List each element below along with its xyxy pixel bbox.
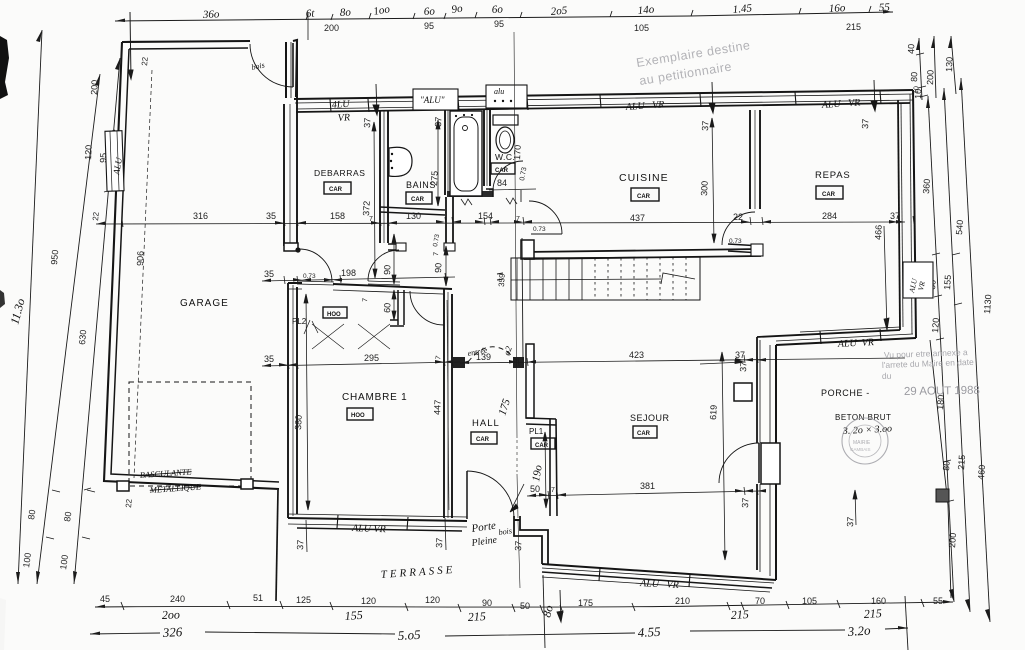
svg-text:14o: 14o	[637, 4, 655, 17]
closet PL2 cross marks	[312, 324, 390, 349]
svg-text:VR: VR	[337, 112, 350, 124]
right long dim line 360/60/120/180/80/200	[928, 96, 954, 602]
top chain right arrow	[883, 10, 893, 14]
svg-text:155: 155	[344, 608, 363, 623]
svg-text:PL2: PL2	[292, 317, 307, 326]
right wall window	[903, 262, 933, 298]
bathtub	[450, 111, 482, 196]
garage inner wall	[111, 48, 279, 482]
svg-text:8o: 8o	[340, 6, 352, 19]
37 porch wall thickness	[700, 360, 744, 364]
svg-text:CAR: CAR	[495, 168, 509, 174]
svg-text:50: 50	[520, 601, 530, 611]
svg-text:200: 200	[925, 70, 936, 85]
chambre hall south 37s	[306, 518, 446, 552]
svg-text:GARAGE: GARAGE	[180, 298, 229, 309]
svg-text:ALU VR: ALU VR	[837, 337, 875, 350]
left dim line outermost 11.30	[18, 30, 42, 584]
svg-text:906: 906	[135, 251, 146, 266]
bains south wall	[388, 244, 397, 250]
bottom total line	[90, 628, 908, 636]
37 labels under top wall	[362, 86, 920, 131]
svg-text:158: 158	[330, 211, 345, 221]
chambre corridor door threshold	[297, 281, 334, 285]
svg-text:HOO: HOO	[327, 312, 341, 318]
entrance door jamb block east	[513, 357, 524, 368]
entrance door jamb block west	[453, 357, 465, 368]
right short dim line 130	[951, 36, 956, 94]
top vertical guide x308	[307, 12, 309, 40]
svg-text:PL1: PL1	[529, 427, 544, 436]
porch dim 619	[720, 352, 727, 560]
svg-text:80: 80	[62, 511, 73, 522]
hall chambre south wall	[288, 518, 520, 521]
stairs outline	[511, 257, 700, 300]
svg-text:7: 7	[362, 298, 369, 302]
svg-text:154: 154	[478, 211, 493, 221]
svg-text:200: 200	[324, 23, 339, 33]
svg-text:300: 300	[699, 181, 710, 197]
scan mark left edge	[0, 290, 5, 308]
svg-text:bois: bois	[498, 526, 512, 537]
svg-text:120: 120	[425, 595, 440, 605]
bains door threshold	[368, 281, 400, 285]
right short dim line 40/80/10	[919, 38, 922, 100]
hall axis line	[514, 32, 520, 588]
svg-text:175: 175	[578, 598, 593, 608]
svg-text:381: 381	[640, 481, 655, 491]
svg-text:22: 22	[733, 212, 743, 222]
svg-text:100: 100	[58, 554, 70, 570]
cuisine hall door leaf	[531, 233, 562, 235]
svg-text:ALU VR: ALU VR	[351, 523, 386, 535]
svg-text:6o: 6o	[424, 5, 436, 18]
svg-text:90: 90	[433, 263, 444, 274]
svg-text:130: 130	[406, 211, 421, 221]
printed sub numbers	[324, 19, 861, 33]
svg-text:326: 326	[161, 624, 183, 640]
bottom main dim line	[95, 602, 953, 607]
top wall window jamb ticks	[330, 91, 881, 112]
svg-text:210: 210	[675, 596, 690, 606]
svg-text:9o: 9o	[451, 2, 464, 15]
svg-text:22: 22	[140, 56, 150, 66]
svg-text:45: 45	[100, 594, 110, 604]
left dim line 950	[37, 74, 100, 584]
chambre dim line y364	[262, 362, 460, 366]
svg-text:HALL: HALL	[472, 418, 500, 429]
svg-text:372: 372	[361, 201, 372, 217]
svg-text:155: 155	[942, 274, 953, 290]
scan edge blob top-left	[0, 36, 9, 99]
step wall garage to house	[286, 41, 297, 99]
svg-text:359: 359	[497, 273, 507, 287]
svg-text:35: 35	[264, 354, 274, 364]
porch north wall (repas south)	[776, 338, 916, 345]
wall garage/debarras W1 upper	[284, 99, 297, 246]
svg-text:215: 215	[863, 606, 882, 621]
sejour east door leaf	[758, 443, 760, 483]
svg-text:DEBARRAS: DEBARRAS	[314, 168, 366, 178]
svg-text:51: 51	[253, 593, 263, 603]
handwritten subtotal row	[162, 604, 883, 624]
svg-text:7: 7	[433, 252, 440, 256]
svg-text:55: 55	[879, 1, 891, 14]
svg-text:5.o5: 5.o5	[397, 627, 421, 643]
wall wc east W4	[484, 110, 490, 186]
svg-text:130: 130	[944, 57, 955, 72]
stair walk line	[511, 279, 661, 280]
repas SW return wall	[728, 244, 761, 253]
house top wall band	[294, 90, 913, 99]
closet PL2 wall	[390, 290, 404, 326]
sejour west step wall	[514, 516, 548, 564]
hall axis dashed section	[516, 440, 518, 472]
stair post	[521, 240, 534, 259]
svg-text:0.73: 0.73	[533, 226, 546, 233]
svg-text:37: 37	[362, 118, 373, 129]
svg-text:105: 105	[634, 23, 649, 33]
svg-text:CAR: CAR	[535, 443, 549, 449]
svg-text:CAR: CAR	[411, 197, 425, 203]
svg-text:1.45: 1.45	[732, 2, 753, 16]
repas vertical 300	[830, 118, 832, 240]
svg-text:284: 284	[822, 211, 837, 221]
svg-text:360: 360	[921, 178, 932, 194]
debarras vertical 372	[372, 122, 377, 278]
svg-text:215: 215	[730, 607, 749, 622]
svg-text:316: 316	[193, 211, 208, 221]
svg-text:35: 35	[264, 269, 274, 279]
vertical separator at terrace step	[543, 575, 545, 648]
svg-text:CAR: CAR	[329, 187, 343, 193]
closet 190	[543, 432, 548, 508]
svg-text:CUISINE: CUISINE	[619, 172, 669, 184]
ticks on bottom line	[121, 599, 924, 613]
chambre north wall	[288, 283, 452, 289]
porch post	[936, 489, 949, 502]
bottom printed numbers	[100, 593, 943, 611]
closet PL1 walls	[526, 344, 534, 418]
svg-text:37: 37	[434, 538, 445, 549]
garage top door leaf	[292, 43, 294, 87]
ticks on near-garage line	[84, 130, 115, 490]
svg-text:70: 70	[755, 596, 765, 606]
top chain left arrow	[115, 19, 125, 23]
svg-text:6o: 6o	[492, 3, 504, 16]
svg-text:CAR: CAR	[637, 431, 651, 437]
hall terrace door arc	[467, 471, 514, 518]
top chain ticks	[306, 6, 871, 20]
svg-text:37: 37	[295, 540, 306, 551]
svg-text:630: 630	[77, 329, 88, 345]
stair risers dashed	[595, 257, 686, 300]
svg-text:95: 95	[494, 19, 504, 29]
svg-text:0.73: 0.73	[303, 273, 316, 280]
right rotated labels	[906, 44, 993, 548]
stair risers solid	[517, 258, 582, 300]
svg-text:PORCHE -: PORCHE -	[821, 388, 870, 398]
cuisine hall door arc	[529, 201, 562, 234]
svg-text:80: 80	[909, 72, 919, 82]
svg-text:200: 200	[89, 80, 100, 96]
svg-text:80: 80	[941, 460, 952, 471]
terrace edge below garage	[276, 490, 278, 601]
svg-text:29 AOUT 1988: 29 AOUT 1988	[904, 385, 980, 398]
svg-text:6t: 6t	[306, 8, 316, 20]
svg-text:466: 466	[873, 225, 884, 241]
svg-text:4LU: 4LU	[331, 99, 350, 111]
sejour dim line y492	[527, 491, 760, 496]
closet PL2 dim 60	[392, 290, 396, 320]
chambre corridor door arc	[299, 249, 332, 282]
window box alu dots	[486, 85, 527, 108]
bains door arc	[368, 250, 399, 281]
svg-text:423: 423	[629, 350, 644, 360]
right wall repas	[913, 90, 916, 338]
hall west wall W5	[446, 197, 453, 246]
svg-text:2oo: 2oo	[162, 607, 180, 622]
svg-text:105: 105	[802, 596, 817, 606]
svg-text:295: 295	[364, 353, 379, 363]
svg-text:37: 37	[738, 362, 749, 373]
svg-text:ALU VR: ALU VR	[639, 578, 679, 591]
svg-text:alu: alu	[494, 87, 504, 96]
svg-text:125: 125	[296, 595, 311, 605]
svg-text:447: 447	[432, 400, 443, 416]
svg-text:CAR: CAR	[822, 192, 836, 198]
svg-text:BAINS: BAINS	[406, 180, 436, 190]
stair break ticks	[497, 273, 503, 280]
porch sejour pillar square	[734, 383, 752, 401]
svg-text:CHAMBRE 1: CHAMBRE 1	[342, 392, 408, 403]
svg-text:240: 240	[170, 594, 185, 604]
svg-text:16o: 16o	[829, 2, 847, 15]
svg-text:REPAS: REPAS	[815, 170, 851, 181]
right short dim line 200	[934, 36, 936, 98]
466 vertical line	[884, 226, 889, 330]
svg-text:37: 37	[740, 498, 751, 509]
sejour south 37 arrow	[853, 490, 857, 525]
svg-text:W.C.: W.C.	[495, 152, 515, 162]
svg-text:90: 90	[482, 598, 492, 608]
hall door swing tick	[510, 484, 524, 512]
tub enclosure wall	[447, 191, 493, 197]
hall dim line 139 + sejour 423	[460, 358, 905, 363]
svg-text:CAR: CAR	[637, 194, 651, 200]
garage wall posts	[117, 481, 129, 491]
svg-text:"ALU": "ALU"	[420, 95, 445, 105]
chambre corridor door hinge	[295, 247, 300, 252]
handwritten totals	[161, 622, 871, 643]
svg-text:380: 380	[293, 415, 304, 431]
svg-text:2o5: 2o5	[550, 5, 568, 18]
svg-text:7: 7	[551, 487, 555, 494]
svg-text:37: 37	[860, 119, 871, 130]
chambre vertical dims 380 447	[304, 294, 310, 510]
svg-text:7: 7	[369, 216, 373, 223]
corridor dim line y280	[262, 277, 455, 281]
svg-text:460: 460	[976, 464, 987, 480]
right long dim line 540/155/215	[944, 88, 970, 612]
svg-text:22: 22	[91, 211, 101, 221]
entrance dashed arc	[468, 347, 517, 362]
svg-text:198: 198	[341, 268, 356, 278]
sejour east door arc	[719, 443, 759, 483]
bains door post	[396, 243, 406, 251]
wall cuisine/repas	[750, 110, 760, 209]
wall debarras/bains W2	[380, 110, 388, 243]
chambre west wall W1 lower	[288, 283, 297, 518]
round mairie stamp	[842, 418, 888, 464]
inner garage height line 906	[134, 70, 152, 478]
svg-text:36o: 36o	[202, 8, 220, 21]
down arrows into top wall	[373, 80, 877, 115]
svg-text:100: 100	[21, 552, 33, 568]
left dim line near garage 200/120/630	[74, 58, 120, 584]
svg-text:SEJOUR: SEJOUR	[630, 413, 670, 423]
svg-text:120: 120	[83, 145, 94, 161]
svg-text:950: 950	[49, 249, 60, 265]
svg-text:215: 215	[467, 609, 486, 624]
handwritten top numbers	[202, 1, 891, 21]
svg-text:437: 437	[630, 213, 645, 223]
svg-text:du: du	[882, 371, 892, 381]
garage door dashed rect	[129, 382, 251, 486]
svg-text:84: 84	[497, 178, 507, 188]
svg-text:BETON BRUT: BETON BRUT	[835, 413, 891, 422]
porch slab east edge	[930, 340, 951, 598]
partition break squiggles	[461, 198, 517, 205]
corridor width dims 90	[392, 234, 396, 284]
svg-text:160: 160	[871, 596, 886, 606]
svg-text:10: 10	[913, 86, 920, 94]
chambre NE door arc	[410, 291, 444, 325]
svg-text:MAIRIE: MAIRIE	[853, 440, 871, 446]
svg-text:120: 120	[361, 596, 376, 606]
svg-text:37: 37	[513, 541, 524, 552]
svg-text:35: 35	[266, 211, 276, 221]
top vertical guide to garage wall	[128, 12, 133, 79]
svg-text:40: 40	[906, 44, 916, 54]
svg-text:GAMBAIS: GAMBAIS	[850, 447, 871, 452]
garage top door arc	[250, 44, 293, 87]
stair break Z mark	[661, 273, 695, 284]
cuisine south wall	[524, 249, 761, 259]
hall terrace door leaf	[466, 471, 468, 519]
top dimension chain line	[115, 12, 893, 21]
svg-text:60: 60	[382, 303, 393, 314]
svg-text:37: 37	[700, 121, 711, 132]
toilet	[493, 115, 518, 125]
svg-text:80: 80	[26, 509, 37, 520]
washbasin	[389, 147, 412, 176]
left rotated labels	[21, 80, 145, 571]
svg-text:540: 540	[954, 219, 965, 235]
sejour south wall	[542, 564, 776, 580]
svg-text:37: 37	[890, 211, 900, 221]
main horizontal dim line y222	[96, 222, 905, 224]
wall bains/wc W3	[445, 110, 451, 195]
vertical separator right end	[905, 596, 908, 650]
cuisine repas door arc	[722, 212, 755, 245]
garage window left wall	[105, 131, 124, 192]
svg-text:1130: 1130	[982, 294, 993, 314]
sejour east wall	[775, 345, 777, 580]
sejour east door frame to porch	[761, 443, 780, 484]
garage outer wall	[122, 40, 297, 97]
bains vertical 275	[436, 120, 440, 206]
cuisine vertical 300	[710, 118, 716, 243]
svg-text:HOO: HOO	[351, 413, 365, 419]
right long dim line 1130/460	[961, 78, 990, 622]
svg-text:55: 55	[933, 596, 943, 606]
svg-text:37: 37	[735, 350, 745, 360]
wc door arc	[493, 161, 523, 190]
W1 end post	[284, 243, 298, 251]
svg-text:90: 90	[382, 265, 393, 276]
svg-text:120: 120	[930, 317, 941, 333]
svg-text:3.2o: 3.2o	[846, 622, 871, 639]
svg-text:215: 215	[846, 22, 861, 32]
svg-text:4.55: 4.55	[637, 624, 661, 640]
hall cuisine partition	[521, 190, 523, 360]
svg-text:22: 22	[124, 498, 134, 508]
small down arrow mid	[557, 590, 563, 622]
svg-text:50: 50	[530, 484, 540, 494]
svg-text:37: 37	[845, 517, 856, 528]
svg-text:7: 7	[516, 216, 520, 223]
bains tub alcove south wall	[380, 207, 445, 215]
svg-text:CAR: CAR	[476, 437, 490, 443]
svg-text:215: 215	[956, 454, 967, 470]
svg-text:37: 37	[433, 117, 444, 128]
svg-text:619: 619	[708, 405, 719, 421]
window box ALU starred	[413, 89, 458, 110]
svg-text:95: 95	[424, 21, 434, 31]
scan mark bottom left	[0, 598, 6, 650]
